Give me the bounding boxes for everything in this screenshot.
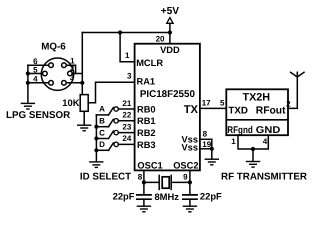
svg-text:MCLR: MCLR	[136, 58, 163, 68]
svg-text:20: 20	[156, 35, 165, 44]
node junction OSC2	[188, 180, 192, 184]
svg-text:D: D	[99, 140, 105, 149]
svg-text:3: 3	[70, 73, 75, 82]
svg-text:A: A	[99, 105, 105, 114]
IC PIC18F2550	[135, 44, 200, 171]
svg-text:17: 17	[202, 98, 211, 107]
svg-text:Vss: Vss	[181, 142, 198, 152]
switch B	[96, 119, 134, 127]
node junction D	[94, 148, 98, 152]
wire OSC2 stub	[189, 170, 191, 182]
svg-text:RB0: RB0	[137, 104, 156, 114]
svg-text:8MHz: 8MHz	[154, 191, 179, 202]
svg-text:1: 1	[231, 137, 236, 146]
svg-text:RB2: RB2	[137, 128, 156, 138]
RF module TX2H	[226, 89, 288, 135]
capacitor C2 22pF	[183, 182, 197, 206]
node junction on rail at VDD stem	[168, 30, 172, 34]
svg-text:2: 2	[286, 99, 291, 108]
wire main vertical from rail to resistor	[81, 33, 83, 95]
wire switch bus	[95, 115, 97, 162]
svg-text:22pF: 22pF	[113, 190, 135, 201]
ground (ID select)	[90, 162, 103, 168]
svg-text:24: 24	[122, 134, 131, 143]
node junction on rail at MCLR branch	[118, 30, 122, 34]
+5V power symbol	[167, 18, 173, 44]
svg-text:MQ-6: MQ-6	[41, 41, 66, 52]
svg-text:5: 5	[220, 98, 225, 107]
ground (10K)	[78, 125, 91, 131]
svg-text:22pF: 22pF	[200, 190, 222, 201]
svg-text:GND: GND	[256, 125, 281, 136]
node junction pin4	[26, 81, 30, 85]
svg-text:RA1: RA1	[137, 76, 156, 86]
crystal X1 8MHz	[144, 175, 190, 189]
svg-text:ID SELECT: ID SELECT	[80, 171, 131, 182]
svg-text:22: 22	[122, 111, 131, 120]
wire pin 2	[72, 73, 82, 75]
wire RFout to antenna	[288, 77, 297, 108]
svg-text:4: 4	[33, 75, 38, 84]
svg-text:RFgnd: RFgnd	[227, 125, 253, 136]
node junction RF ground	[251, 147, 255, 151]
svg-text:+5V: +5V	[161, 6, 180, 17]
svg-text:4: 4	[263, 137, 268, 146]
wire TX to TXD	[200, 107, 226, 109]
wire pin 1 (RFgnd)	[238, 135, 253, 149]
wire left bus	[27, 65, 29, 103]
switch C	[96, 130, 134, 138]
svg-text:RF TRANSMITTER: RF TRANSMITTER	[221, 172, 307, 183]
wire Vss pin 8	[200, 138, 212, 140]
switch A	[96, 107, 134, 115]
svg-text:TXD: TXD	[228, 106, 248, 117]
ground (Vss)	[205, 159, 218, 165]
wire OSC1 stub	[143, 170, 145, 182]
svg-text:23: 23	[122, 122, 131, 131]
svg-text:TX: TX	[184, 104, 199, 116]
wire +5V rail	[82, 32, 170, 34]
ground (C1)	[137, 206, 150, 212]
svg-text:RFout: RFout	[256, 106, 286, 117]
wire pin 4	[28, 82, 49, 84]
wire pin 4 (GND)	[253, 135, 268, 149]
svg-text:LPG SENSOR: LPG SENSOR	[6, 110, 70, 121]
wire pin 1	[66, 65, 75, 73]
sensor MQ-6 body	[41, 58, 73, 90]
svg-text:C: C	[99, 128, 105, 137]
svg-text:OSC2: OSC2	[173, 161, 198, 171]
TX2H internal divider	[226, 119, 288, 121]
svg-text:VDD: VDD	[160, 45, 180, 55]
node junction C	[94, 136, 98, 140]
node junction Vss	[210, 147, 214, 151]
ground (C2)	[183, 206, 196, 212]
svg-text:OSC1: OSC1	[137, 161, 162, 171]
node junction OSC1	[142, 180, 146, 184]
node junction B	[94, 125, 98, 129]
svg-text:3: 3	[127, 71, 132, 80]
wire pin 6	[28, 64, 49, 66]
switch D	[96, 142, 134, 150]
svg-text:1: 1	[125, 51, 130, 60]
node junction pin5	[26, 71, 30, 75]
svg-text:10K: 10K	[62, 97, 79, 108]
antenna	[291, 72, 304, 77]
svg-text:RB3: RB3	[137, 140, 156, 150]
wire Vss vertical	[211, 139, 213, 159]
resistor 10K	[80, 95, 88, 112]
wire pin 5	[28, 73, 43, 75]
wire resistor bottom to ground	[83, 111, 85, 125]
svg-text:19: 19	[202, 140, 211, 149]
svg-text:TX2H: TX2H	[242, 91, 270, 103]
wire to RF ground	[252, 149, 254, 161]
svg-text:8: 8	[203, 129, 208, 138]
wire MCLR branch	[120, 33, 135, 62]
ground (LPG sensor)	[21, 103, 34, 109]
svg-text:RB1: RB1	[137, 116, 156, 126]
ground (RF)	[247, 162, 260, 168]
wire pin 3	[66, 82, 82, 84]
svg-text:5: 5	[33, 65, 38, 74]
node junction pin3/resistor	[80, 81, 84, 85]
svg-text:PIC18F2550: PIC18F2550	[140, 89, 196, 100]
wire RA1 tap	[88, 82, 134, 102]
wire Vss pin 19	[200, 148, 212, 150]
svg-text:9: 9	[183, 172, 188, 181]
svg-text:8: 8	[138, 172, 143, 181]
capacitor C1 22pF	[137, 182, 151, 206]
svg-text:B: B	[99, 117, 105, 126]
svg-text:21: 21	[122, 99, 131, 108]
